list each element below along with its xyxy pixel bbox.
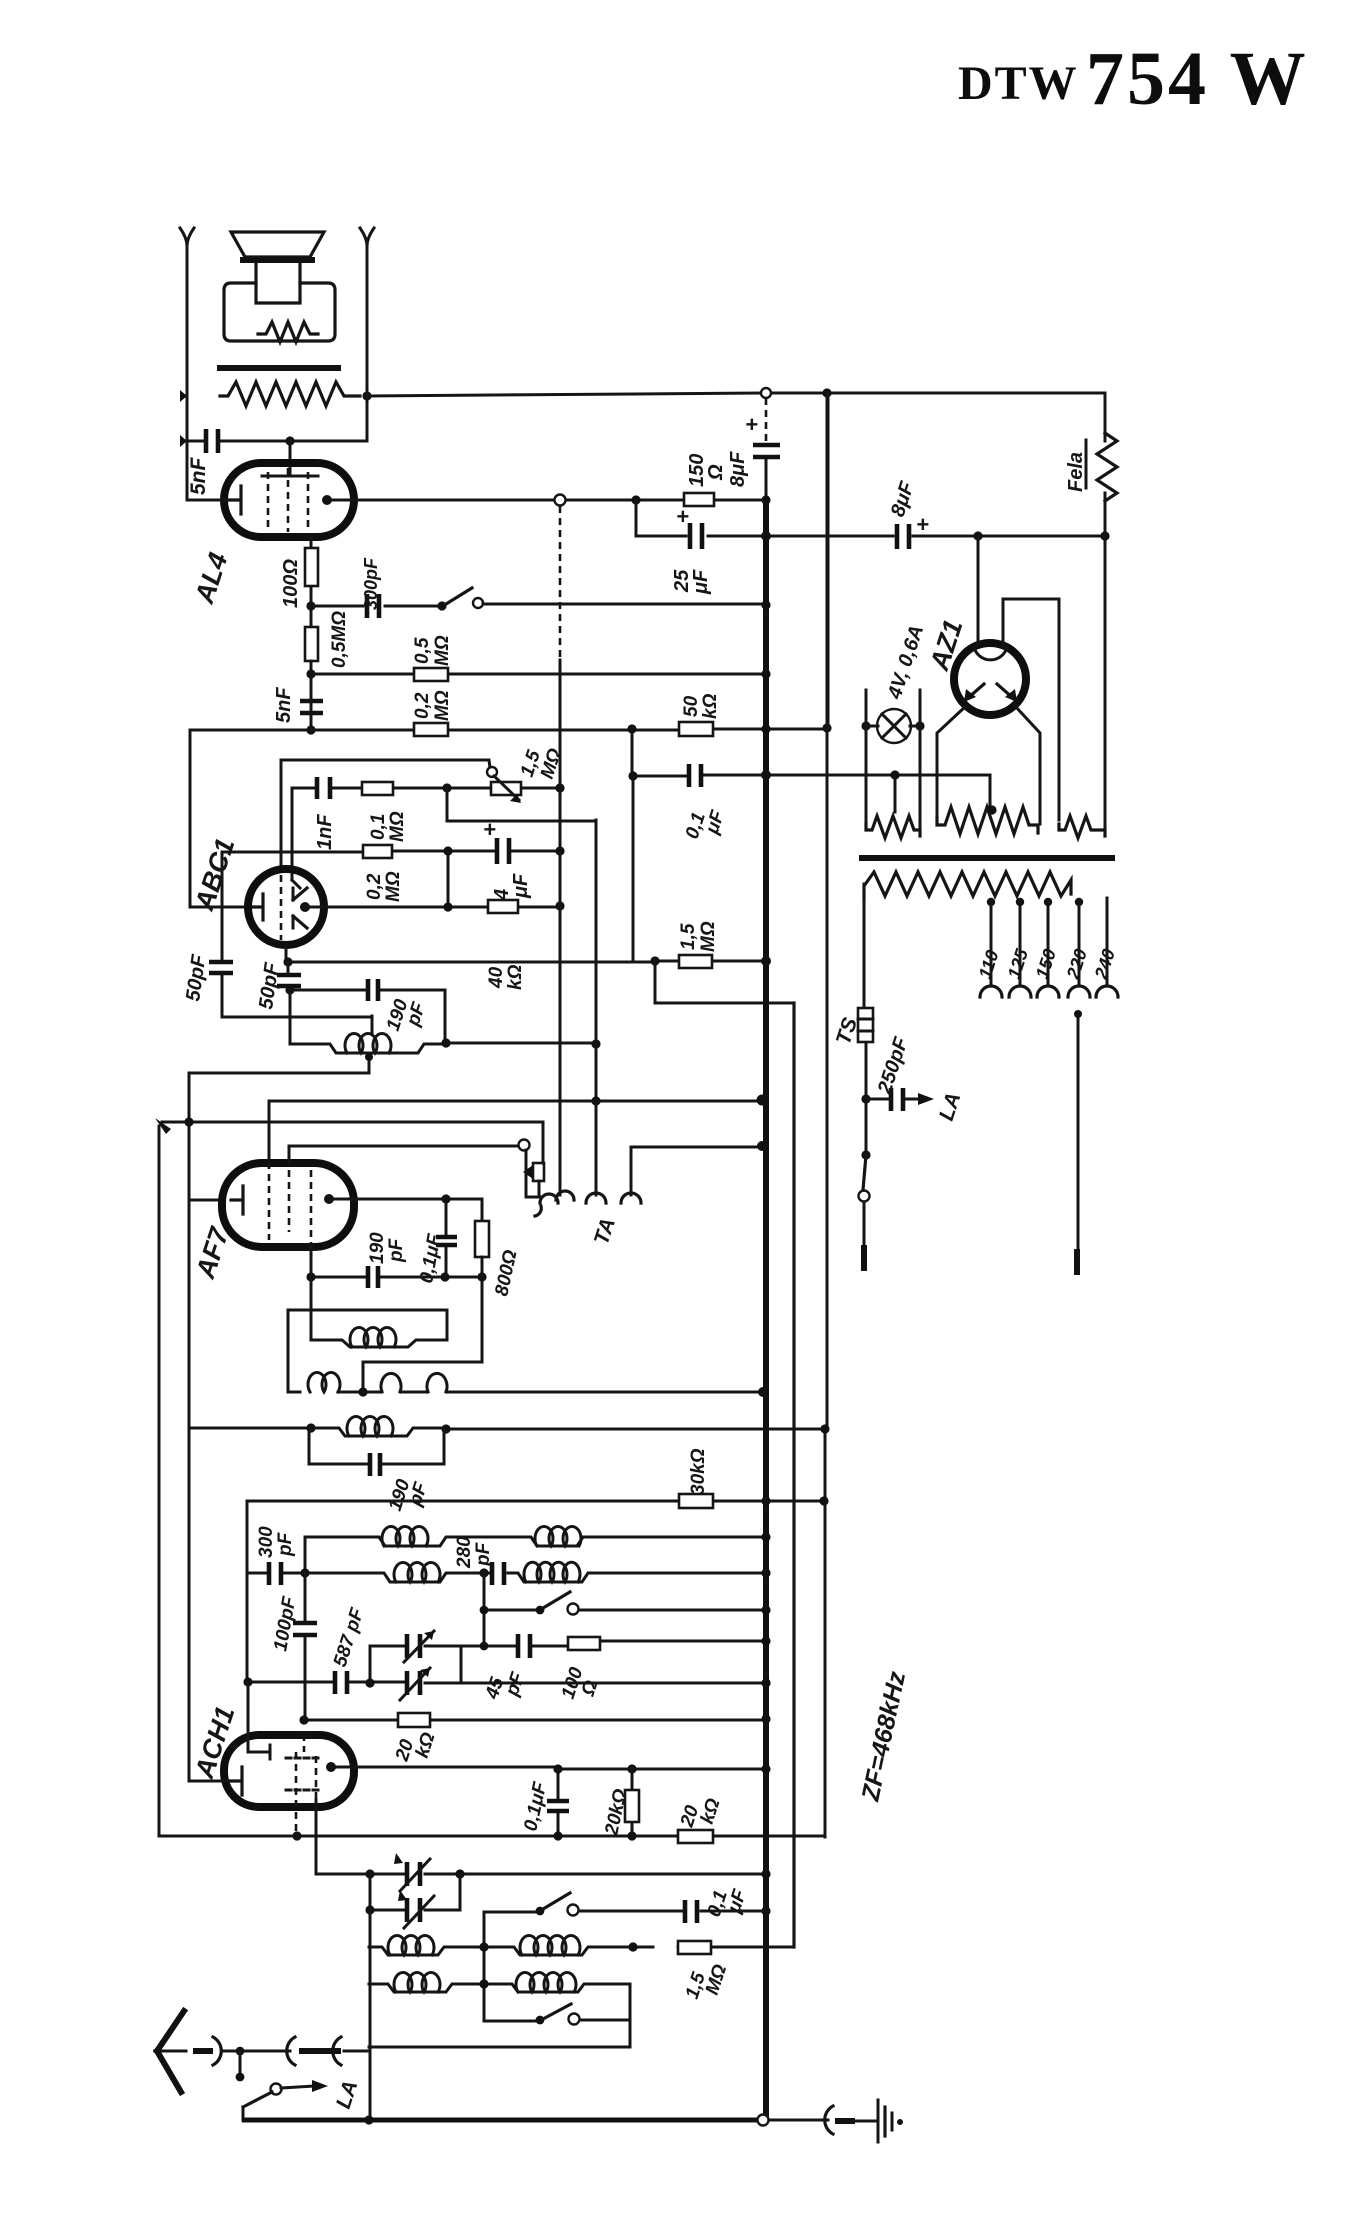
transformer core [862, 855, 1112, 861]
node 1573 bus [761, 1568, 770, 1577]
wire 0,2M row 851 [222, 851, 560, 852]
wire row 1874 [316, 1873, 766, 1876]
hook TA4 [621, 1193, 641, 1203]
wire 895 tap [894, 775, 897, 812]
hook tap150 [1037, 986, 1059, 997]
arrowhead 1122 [155, 1118, 171, 1134]
ABC1 cathode [253, 894, 263, 920]
node 484-1646 [480, 1642, 489, 1651]
capacitor 45pF [518, 1634, 530, 1658]
coil IF1 coupled row [288, 1372, 763, 1392]
ABC1 anode node [300, 902, 310, 912]
wire 5nF row [187, 440, 367, 443]
capacitor 50pF left [209, 962, 233, 973]
jack TA box [533, 1163, 544, 1181]
svg-text:+: + [745, 412, 758, 437]
node 297-1836 [292, 1831, 301, 1840]
resistor 150 Ohm [684, 493, 714, 506]
wire vertical 794 [792, 1003, 795, 1947]
ACH1 pin node [326, 1762, 336, 1772]
wire hook3 vert [595, 1101, 598, 1195]
resistor 100 Ohm AL4 [305, 548, 318, 586]
tube AF7 envelope [222, 1163, 354, 1247]
wire AF7 anode vert [310, 1247, 313, 1340]
primary winding zigzag [220, 382, 360, 406]
wire coil bottom tap [189, 1057, 369, 1122]
wire left vertical to AL4 grid [186, 246, 189, 500]
svg-text:754 W: 754 W [1086, 37, 1309, 121]
wire row 1984 [369, 1984, 630, 1992]
capacitor 5nF coupling [300, 701, 323, 713]
switch mains [865, 1099, 868, 1155]
wire cathode row to 150ohm [327, 499, 767, 502]
node 558-1769 [553, 1764, 562, 1773]
capacitor 100pF [293, 1623, 317, 1635]
AF7 cathode [231, 1186, 243, 1214]
capacitor 587pF [335, 1671, 347, 1694]
ground symbol [877, 2100, 880, 2142]
svg-text:+: + [676, 504, 689, 529]
switch LA bottom [271, 2084, 282, 2095]
wire switch row 2020 [484, 2020, 630, 2021]
wire row 1836 [159, 1835, 824, 1838]
node speaker right [362, 391, 371, 400]
node tap110 [987, 898, 995, 906]
title DTW 754 W [958, 37, 1309, 121]
wire TA plug branch [526, 1150, 540, 1197]
node tap 363 [358, 1387, 367, 1396]
wire 482 down to tap [363, 1277, 482, 1392]
varcap tuning main [407, 1862, 420, 1886]
wire 5nF vert [310, 661, 313, 730]
resistor 0,2 MOhm [414, 723, 448, 736]
svg-text:0,5: 0,5 [412, 637, 433, 664]
winding primary [864, 872, 1071, 898]
node 484-1984 [479, 1979, 488, 1988]
wire coil top tap [371, 1016, 374, 1034]
svg-text:100Ω: 100Ω [280, 559, 302, 608]
svg-text:μF: μF [510, 873, 532, 899]
wire 300pF row [311, 605, 442, 608]
svg-text:MΩ: MΩ [432, 690, 453, 721]
svg-text:pF: pF [275, 1531, 296, 1557]
wire 0,5M row [311, 673, 766, 676]
node bus bottom circle [758, 2115, 769, 2126]
resistor 0,1 MOhm [362, 782, 393, 795]
resistor 20k vert [631, 1769, 634, 1836]
capacitor 0,1uF row1911 [685, 1900, 697, 1923]
node lamp left [861, 721, 870, 730]
node 305-1573 [300, 1568, 309, 1577]
capacitor 5nF [206, 429, 218, 453]
node 50k left [627, 724, 636, 733]
coil band C [394, 1562, 440, 1582]
arrow LA right [918, 1093, 934, 1105]
AL4 grids dashed [268, 468, 308, 532]
capacitor 190pF AF7 [368, 1266, 378, 1288]
resistor 800 Ohm [475, 1221, 489, 1257]
svg-text:190: 190 [367, 1232, 388, 1264]
node 1874 bus [761, 1869, 770, 1878]
wire 484 vertical [483, 1912, 486, 2021]
tube ACH1 envelope [224, 1735, 354, 1807]
resistor 20k row1836 [678, 1830, 713, 1843]
node 189-1122 [184, 1117, 193, 1126]
svg-text:30kΩ: 30kΩ [688, 1448, 709, 1495]
hook TA3 [586, 1193, 606, 1203]
node 484-1610 [480, 1606, 489, 1615]
node 1,5M bus [761, 956, 771, 966]
wire 1,5M branch to 794 [655, 961, 794, 1003]
node 150 bus [761, 495, 770, 504]
resistor 40k [488, 900, 518, 913]
wire 1429 row [189, 1200, 825, 1429]
fuse TS [858, 1008, 873, 1042]
tube AZ1 envelope [954, 643, 1026, 715]
node 50k end [822, 723, 831, 732]
wire band switch row 1610 [484, 1573, 766, 1646]
svg-text:300: 300 [256, 1526, 277, 1558]
capacitor 300pF band [269, 1562, 281, 1585]
node 460-1874 [455, 1869, 464, 1878]
transformer core bar [220, 365, 338, 371]
node 5nF left [180, 435, 187, 447]
magnet frame [224, 283, 335, 341]
node 1911 bus [761, 1906, 770, 1915]
wire 369 vertical gang [369, 1910, 372, 2120]
node 978-536 [973, 531, 982, 540]
svg-text:8μF: 8μF [727, 451, 749, 487]
svg-text:0,1: 0,1 [368, 814, 389, 840]
node 446-1199 [441, 1194, 450, 1203]
wire grid box left [190, 730, 248, 907]
node 596-1044 [591, 1039, 600, 1048]
winding 4V AZ1 [1059, 816, 1105, 838]
wire ground bus row [242, 2118, 757, 2123]
node 827 top [822, 388, 831, 397]
svg-text:+: + [483, 817, 496, 842]
svg-text:MΩ: MΩ [383, 871, 404, 902]
node bus top circle [761, 388, 771, 398]
coil band D [524, 1562, 580, 1582]
node 448-851 [443, 846, 452, 855]
wire ACH1 bottom lead [315, 1800, 318, 1874]
node tap150 [1044, 898, 1052, 906]
node 248-1682 [243, 1677, 252, 1686]
wire anode vertical into tube [280, 760, 283, 869]
ABC1 diode plates [293, 888, 307, 928]
coil osc1 [520, 1935, 580, 1955]
wire bus vertical thick [765, 398, 768, 443]
node 30k bus [761, 1496, 770, 1505]
node 632-1769 [627, 1764, 636, 1773]
resistor 50k [679, 722, 713, 736]
node 484-1947 [479, 1942, 488, 1951]
winding HT secondary [937, 807, 1038, 834]
resistor 30k [679, 1494, 713, 1508]
node 674 bus [761, 669, 770, 678]
wire grid row [187, 499, 232, 502]
capacitor 50pF center [277, 975, 301, 986]
wire row 1573 [247, 1573, 766, 1582]
capacitor 8uF (AL4) [753, 445, 780, 457]
coil ant1 [388, 1935, 434, 1955]
wire 447 to 821 [447, 788, 596, 821]
node 895-775 [890, 770, 899, 779]
coil IF1 primary [312, 1340, 447, 1347]
potentiometer 1,5 MOhm [487, 767, 497, 777]
wire AVC 827 vertical [825, 393, 827, 1837]
tube ABC1 envelope [248, 869, 324, 945]
node 633-776 [628, 771, 637, 780]
AL4 cathode [227, 486, 241, 514]
resistor 1,5 MOhm [679, 955, 712, 968]
svg-text:μF: μF [690, 569, 712, 595]
node pot right [555, 783, 564, 792]
capacitor 190pF [368, 979, 378, 1001]
capacitor 250pF [891, 1088, 903, 1111]
node anode tap [285, 436, 294, 445]
speaker terminal hook left [180, 228, 194, 246]
node 1770 bus [761, 1764, 770, 1773]
node 484-1573 [479, 1568, 488, 1577]
node tap220 [1075, 898, 1083, 906]
hook TA2 [556, 1191, 574, 1200]
wire 1nF row [292, 787, 560, 790]
wire row 1720 [304, 1719, 766, 1722]
wire dashed cath [295, 1800, 298, 1836]
ABC1 grid dashed [280, 875, 283, 940]
svg-text:1,5: 1,5 [678, 923, 699, 950]
antenna coupling arc [213, 2037, 221, 2065]
hook tap220 [1068, 986, 1090, 997]
capacitor 25uF [690, 523, 702, 549]
node lamp right [915, 721, 924, 730]
node 4uF right [555, 846, 564, 855]
node 311-1277 [306, 1272, 315, 1281]
switch tone [437, 601, 446, 610]
wire 0,1uF cath row [633, 775, 990, 810]
node 558-1836 [553, 1831, 562, 1840]
capacitor 190pF IF2 [309, 1428, 444, 1464]
wire taps [991, 898, 1107, 985]
capacitor 1nF [317, 777, 330, 799]
AZ1 filament loop [974, 647, 1007, 660]
node speaker left [180, 390, 187, 402]
node 825-1429 [820, 1424, 829, 1433]
wire 0,2M row [190, 729, 827, 730]
AZ1 anodes [968, 684, 1013, 698]
switch band [536, 1606, 545, 1615]
node tap125 [1016, 898, 1024, 906]
node 596-1101 [591, 1096, 600, 1105]
AF7 grid caps dashed [269, 1146, 311, 1247]
wire 190pF row 1277 [311, 1276, 482, 1279]
svg-text:pF: pF [473, 1541, 494, 1567]
node 1392 bus [758, 1387, 768, 1397]
wire 630 vertical [629, 1985, 632, 2046]
AF7 pin node [324, 1194, 334, 1204]
wire hook4 vert [631, 1147, 762, 1195]
wire AF7 anode row [329, 1199, 482, 1221]
node 1720 bus [761, 1714, 770, 1723]
winding 4V lamp [866, 816, 920, 838]
wire 190pF row [290, 990, 445, 1043]
svg-text:kΩ: kΩ [505, 964, 526, 990]
wire lamp stubs [866, 690, 920, 830]
IF1 can loop top [288, 1310, 447, 1392]
resistor Fela zigzag [1097, 433, 1117, 501]
coil osc2 [516, 1972, 576, 1992]
varcap tuning trimmer [407, 1898, 420, 1922]
wire anode row 907 [305, 906, 560, 909]
node fuse bottom [861, 1094, 870, 1103]
coil ant2 [394, 1972, 440, 1992]
svg-text:0,5MΩ: 0,5MΩ [329, 611, 350, 668]
svg-text:0,2: 0,2 [364, 873, 385, 900]
wire ACH1 grid row [189, 1428, 230, 1781]
loudspeaker cone [231, 232, 324, 257]
plug triangle [523, 1165, 533, 1179]
hook tap125 [1009, 986, 1031, 997]
resistor 20k osc [398, 1713, 430, 1727]
switch TA circle [519, 1140, 530, 1151]
wire row 962 [288, 961, 766, 962]
wire AZ1 top leads [978, 536, 1059, 820]
resistor 0,5 MOhm horizontal [414, 668, 448, 681]
resistor 100 Ohm osc [568, 1637, 600, 1650]
ABC1 grid hook [292, 880, 300, 888]
svg-text:MΩ: MΩ [698, 921, 719, 952]
node 1105-536 [1100, 531, 1109, 540]
capacitor ant series [287, 2037, 295, 2065]
node 445-1277 [440, 1272, 449, 1281]
capacitor 0,1uF ach [557, 1769, 560, 1836]
wire 448 to 907 [447, 851, 450, 907]
wire to ground symbol [769, 2119, 828, 2122]
wire ant lead [222, 2050, 290, 2053]
node 0,1uF bus [761, 770, 771, 780]
svg-text:50: 50 [681, 695, 702, 717]
ACH1 cathode [230, 1767, 242, 1795]
node 8uF-AL4 [761, 531, 771, 541]
node 304-1720 [299, 1715, 308, 1724]
capacitor 4uF [497, 838, 509, 864]
capacitor 0,1uF AF7 [445, 1199, 448, 1277]
wire anode lead [289, 441, 292, 468]
wire 1101 row [269, 1101, 762, 1166]
coil IF2 top [311, 1428, 446, 1436]
wire 632 vertical [632, 729, 633, 961]
wire AZ1 anode leads [937, 706, 1040, 825]
hook TA1 [535, 1194, 558, 1216]
wire 159 vertical [158, 1126, 161, 1836]
wire LA to ground row [242, 2107, 245, 2120]
wire row 1646 [461, 1641, 766, 1646]
node 990 [285, 985, 294, 994]
wire primary left fuse [864, 884, 866, 1099]
svg-text:kΩ: kΩ [700, 693, 721, 719]
svg-text:300pF: 300pF [361, 557, 381, 610]
capacitor 0,1uF [689, 764, 701, 787]
AL4 anode internal [262, 468, 318, 476]
wire row 1767 [331, 1767, 766, 1769]
node 40k-560 [555, 901, 564, 910]
voice coil [256, 262, 300, 303]
wire 596 vertical [595, 820, 598, 1195]
hook tap110 [980, 986, 1002, 997]
node 369-2120 [364, 2115, 373, 2124]
wire volume line 560 [559, 506, 562, 660]
wire mains lead 220 [1077, 1012, 1080, 1258]
wire row 1911 [484, 1911, 766, 1912]
tube AL4 envelope [224, 463, 354, 537]
svg-text:DTW: DTW [958, 57, 1079, 110]
wire row 1947 [369, 1947, 794, 1955]
wire row 1683 [248, 1682, 766, 1683]
wire box left 247 [246, 1501, 249, 1682]
speaker terminal hook right [360, 228, 374, 246]
wire 100pF vert [304, 1573, 307, 1720]
coil band A [382, 1526, 428, 1546]
node 300pF row [306, 601, 315, 610]
wire right vertical to 5nF line [366, 246, 369, 441]
node 762-1146 [757, 1141, 767, 1151]
terminal circle speaker jack [555, 495, 566, 506]
svg-text:pF: pF [386, 1237, 407, 1263]
wire 1122 row [162, 1122, 543, 1163]
node 482-1277 [477, 1272, 486, 1281]
switch row1911 [536, 1907, 545, 1916]
svg-text:+: + [916, 512, 929, 537]
node 1101 bus [757, 1095, 768, 1106]
wire to 369 [344, 2020, 630, 2051]
resistor 0,5M vertical [305, 627, 318, 661]
hum-buck resistor zigzag [258, 322, 318, 342]
switch osc [536, 2016, 545, 2025]
svg-text:MΩ: MΩ [387, 811, 408, 842]
wire 50pF down [287, 962, 290, 990]
capacitor 280pF [492, 1562, 504, 1585]
wire 1105 vertical [1104, 501, 1107, 830]
svg-text:280: 280 [454, 1536, 475, 1569]
node 1538 bus [761, 1532, 770, 1541]
svg-text:Ω: Ω [705, 464, 727, 481]
coil band B [535, 1526, 581, 1546]
wire B+ top rail [367, 393, 1105, 433]
node 632-1836 [627, 1831, 636, 1840]
wire 828 vertical top [827, 393, 830, 560]
node 446-1429 [441, 1424, 450, 1433]
node 674 [306, 669, 315, 678]
svg-text:40: 40 [486, 966, 507, 989]
node 370-1910 [365, 1905, 374, 1914]
resistor 1,5M osc [678, 1941, 711, 1954]
node 1610 bus [761, 1605, 770, 1614]
varcap osc trimmer [407, 1634, 420, 1658]
wire 1146 row [289, 1146, 519, 1163]
resistor 0,2 MOhm 851 [363, 845, 392, 858]
wire anode row 760 [281, 760, 490, 768]
wire 100ohm lead [310, 537, 313, 730]
svg-text:5nF: 5nF [187, 456, 210, 495]
svg-text:0,2: 0,2 [412, 692, 433, 719]
node 370-1683 [365, 1678, 374, 1687]
node coil right [441, 1038, 450, 1047]
wire 1nF grid lead [291, 788, 294, 880]
ACH1 top grid [248, 1682, 270, 1759]
svg-text:Fela: Fela [1065, 452, 1087, 492]
